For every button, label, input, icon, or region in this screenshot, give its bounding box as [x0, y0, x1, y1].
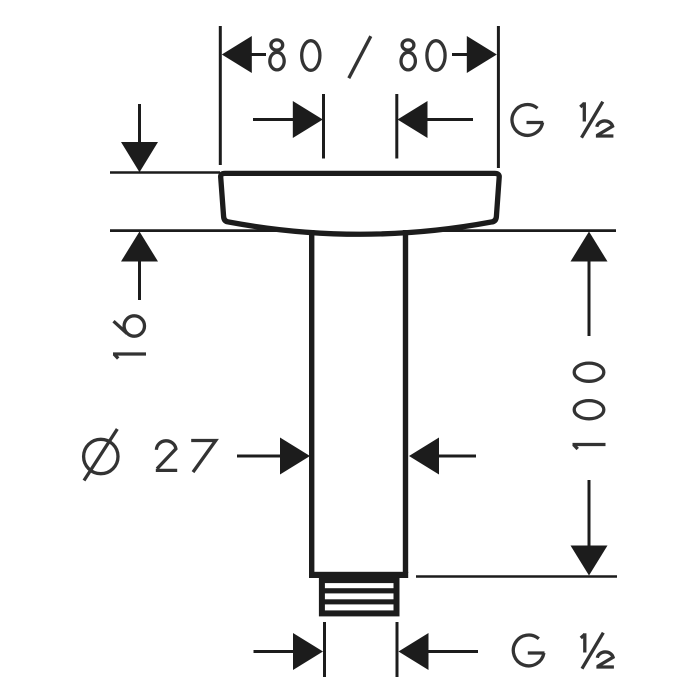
thread relief stripe 2	[325, 593, 394, 599]
thread relief stripe 3	[325, 604, 394, 610]
dim text 100 (rotated)	[573, 363, 606, 449]
dim tail 80/80 right	[452, 53, 468, 56]
dim text 80/80: digit 0 (second)	[427, 41, 445, 71]
pipe right edge	[403, 230, 408, 573]
arrowhead G1/2 bottom right	[399, 633, 429, 670]
pipe left edge	[309, 230, 314, 573]
dim text 27: digit 2	[156, 441, 177, 471]
dim line 16 top	[138, 104, 141, 143]
dim tail G1/2 top left	[253, 118, 294, 121]
thread top collar bar	[309, 572, 408, 578]
arrowhead diameter-27 right	[409, 438, 439, 475]
label 1/2 (top)	[580, 102, 613, 138]
extension line 80/80 right	[497, 26, 500, 168]
label 1/2 (bottom)	[581, 633, 614, 669]
extension line G1/2 top right	[395, 94, 398, 159]
thread block	[319, 578, 400, 617]
arrowhead 16 up	[121, 232, 158, 262]
arrowhead 100 up	[571, 232, 608, 262]
extension line G1/2 bottom right	[396, 622, 399, 677]
dim text 80/80: digit 8 (second)	[401, 40, 415, 70]
arrowhead diameter-27 left	[280, 438, 310, 475]
arrowhead 80/80 left	[222, 36, 252, 73]
dim line 100 bottom	[588, 480, 591, 547]
arrowhead 80/80 right	[467, 36, 497, 73]
label G (bottom): letter G	[513, 635, 544, 666]
extension line 80/80 left	[219, 26, 222, 165]
dim tail diameter-27 left	[237, 455, 282, 458]
dim tail 80/80 left	[251, 53, 266, 56]
flange-bottom reference line	[110, 229, 616, 232]
dim text 27: digit 7	[191, 441, 216, 473]
arrowhead 100 down	[571, 546, 608, 576]
ceiling reference line (left of flange)	[110, 171, 220, 174]
thread relief stripe 1	[325, 583, 394, 588]
dim tail G1/2 bottom right	[427, 650, 478, 653]
thread-bottom reference line	[416, 575, 617, 578]
arrowhead G1/2 top left	[293, 101, 323, 138]
arrowhead G1/2 top right	[398, 101, 428, 138]
extension line G1/2 top left	[322, 94, 325, 159]
dim tail G1/2 bottom left	[254, 650, 297, 653]
dim text 80/80: slash	[349, 36, 371, 78]
dim line 100 top	[588, 261, 591, 336]
dim text 80/80: digit 0	[302, 41, 320, 71]
arrowhead G1/2 bottom left	[293, 633, 323, 670]
dim text 16 (rotated)	[113, 316, 146, 359]
dim tail G1/2 top right	[427, 118, 473, 121]
dim line 16 bottom	[138, 260, 141, 300]
arrowhead 16 down	[121, 142, 158, 172]
label diameter symbol	[84, 429, 118, 481]
flange (ceiling escutcheon) outline	[221, 173, 500, 234]
extension line G1/2 bottom left	[323, 622, 326, 677]
dim tail diameter-27 right	[438, 455, 476, 458]
label G (top): letter G	[512, 105, 543, 136]
dim text 80/80: digit 8	[270, 40, 284, 70]
